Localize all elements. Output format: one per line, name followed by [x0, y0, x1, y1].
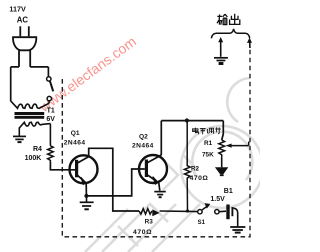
wire S1 to battery	[219, 210, 226, 213]
输	[217, 14, 227, 25]
transformer T1 primary winding	[11, 101, 49, 108]
battery B1	[226, 205, 229, 220]
svg-text:Q2: Q2	[139, 134, 148, 141]
resistor R2	[184, 121, 190, 211]
ground (R1, filled triangle)	[215, 167, 228, 174]
node Q1 emitter junction	[84, 194, 88, 198]
AC plug P1	[11, 26, 49, 67]
node top rail / R2	[185, 118, 189, 122]
svg-text:S1: S1	[198, 220, 206, 226]
R3 junction arrow	[152, 209, 159, 216]
label 输出	[217, 14, 240, 25]
wire plug-right down to switch S2	[47, 67, 49, 77]
output brace	[211, 29, 249, 38]
output terminal left (arrow)	[220, 41, 222, 57]
resistor R3	[139, 209, 152, 215]
wire Q1 emitter to ground	[86, 196, 88, 202]
transformer T1 core	[15, 112, 45, 115]
transformer T1 secondary winding	[19, 122, 50, 128]
R1 wiper arrow	[231, 142, 249, 146]
svg-text:100K: 100K	[25, 155, 42, 162]
wire Q1 emitter down	[85, 183, 87, 196]
ground (output left)	[214, 58, 228, 64]
ground (battery)	[230, 227, 245, 233]
transistor Q2	[139, 155, 167, 184]
svg-text:470Ω: 470Ω	[190, 175, 209, 182]
dashed case boundary	[62, 48, 250, 237]
svg-text:117V: 117V	[9, 4, 26, 13]
wire battery to ground	[233, 208, 237, 226]
svg-text:2N464: 2N464	[132, 142, 154, 149]
svg-text:AC: AC	[17, 16, 29, 25]
wire top rail down to R1	[222, 121, 224, 140]
output terminal right (arrow)	[249, 42, 251, 49]
svg-text:R1: R1	[204, 140, 213, 147]
svg-text:2N464: 2N464	[64, 140, 86, 147]
svg-text:R3: R3	[145, 219, 154, 226]
ground (Q2 emitter)	[154, 192, 166, 198]
top rail wire	[161, 120, 223, 122]
svg-text:R2: R2	[191, 166, 199, 173]
switch S2	[47, 77, 54, 101]
ground (Q1 emitter)	[80, 202, 94, 209]
wire Q2 emitter to ground	[159, 183, 160, 191]
wire secondary right down to R4	[49, 124, 51, 146]
节	[215, 127, 221, 134]
label 电平调节	[193, 127, 221, 134]
svg-text:1.5V: 1.5V	[210, 196, 225, 203]
wire R1 bottom to ground	[221, 157, 223, 167]
平	[200, 128, 206, 134]
svg-text:B1: B1	[224, 188, 233, 195]
svg-text:75K: 75K	[202, 152, 214, 159]
svg-text:T1: T1	[47, 107, 55, 114]
电	[193, 128, 199, 135]
wire R4 to Q1 base	[50, 162, 75, 170]
wire R3 to switch S1	[160, 210, 198, 213]
wire S2 to transformer primary right	[48, 101, 50, 104]
resistor R4	[48, 146, 54, 162]
node R2 / bottom rail	[186, 209, 189, 212]
wire secondary left to ground	[18, 128, 20, 136]
ground (transformer secondary)	[13, 136, 26, 142]
wire Q1 collector feedback loop	[89, 148, 139, 211]
svg-text:470Ω: 470Ω	[133, 229, 152, 236]
wire Q1 emitter to Q2 base	[86, 169, 144, 196]
potentiometer R1	[219, 140, 225, 157]
出	[230, 14, 240, 25]
svg-text:Q1: Q1	[71, 130, 80, 137]
wire Q2 collector up to top rail	[160, 121, 162, 156]
gray logo watermark	[85, 78, 263, 252]
svg-text:R4: R4	[33, 146, 42, 153]
switch S1	[198, 204, 219, 214]
wire plug-left down to transformer primary	[10, 67, 12, 101]
transistor Q1	[70, 155, 98, 184]
调	[207, 128, 213, 134]
svg-text:6V: 6V	[46, 116, 55, 123]
